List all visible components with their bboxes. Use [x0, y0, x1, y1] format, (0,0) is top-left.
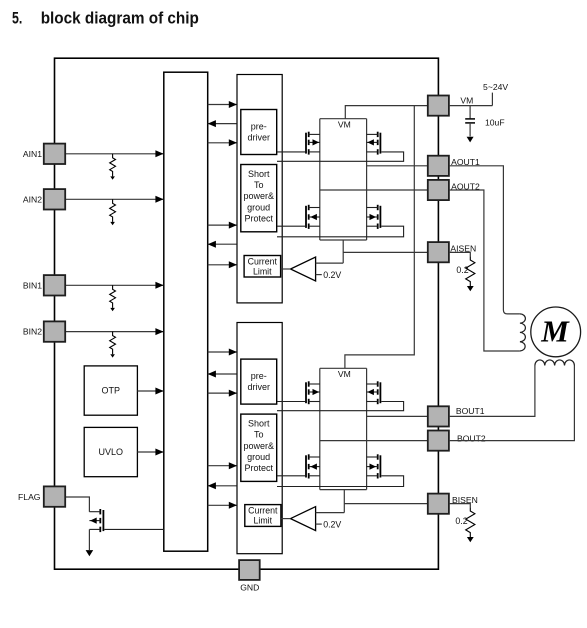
wire UVLO to logic: [137, 451, 163, 453]
wire BOUT1 node to pad: [367, 415, 428, 417]
svg-text:UVLO: UVLO: [99, 447, 124, 457]
svg-text:GND: GND: [240, 583, 259, 593]
svg-text:Limit: Limit: [254, 516, 273, 526]
bridge A bottom rail: [320, 239, 367, 241]
svg-text:pre-: pre-: [251, 121, 267, 131]
svg-text:AIN1: AIN1: [23, 149, 42, 159]
transistor Q1 (FLAG open drain): [89, 509, 163, 532]
svg-text:Short: Short: [248, 169, 270, 179]
OTP block: [84, 366, 137, 415]
wire bridge A sense tap: [342, 240, 344, 263]
capacitor C1 10uF: [469, 106, 471, 119]
wire BISEN node to pad: [344, 503, 428, 505]
svg-text:AIN2: AIN2: [23, 194, 42, 204]
wire VM pad to supply: [449, 105, 493, 107]
current limit block B: [245, 505, 281, 527]
pad BOUT2: [428, 431, 449, 451]
svg-text:BOUT2: BOUT2: [457, 433, 486, 443]
control logic block: [164, 72, 208, 551]
sense resistor 0.2 ohm A: [466, 256, 475, 286]
pad GND: [239, 560, 260, 580]
svg-text:pre-: pre-: [251, 371, 267, 381]
svg-text:Limit: Limit: [253, 266, 272, 276]
svg-text:0.2: 0.2: [456, 265, 468, 275]
short-to-power-ground protect block B: [241, 414, 277, 481]
wire BIN2 to logic: [65, 331, 163, 333]
MOSFET B4 (low side right): [277, 454, 404, 486]
svg-text:5.: 5.: [12, 8, 22, 27]
svg-text:5~24V: 5~24V: [483, 82, 508, 92]
wire VM pad to bridge A rail: [345, 106, 428, 119]
pre-driver block B: [241, 359, 277, 404]
wire FLAG pad to transistor drain: [65, 497, 89, 512]
wire BIN1 to logic: [65, 284, 163, 286]
wire AIN1 to logic: [65, 153, 163, 155]
wire comparator B reference input: [316, 523, 322, 525]
pulldown resistor on BIN1: [110, 285, 116, 308]
svg-text:BIN2: BIN2: [23, 327, 42, 337]
svg-text:VM: VM: [338, 369, 351, 379]
supply stub 5~24V: [491, 93, 493, 106]
control signal wire B2: [208, 373, 237, 375]
sense resistor 0.2 ohm B: [466, 507, 475, 537]
wire AOUT1 node to pad: [367, 165, 428, 167]
svg-text:groud: groud: [247, 452, 270, 462]
comparator U3 (current limit B): [291, 507, 316, 531]
MOSFET B1 (high side left): [277, 381, 320, 404]
MOSFET A4 (low side right): [277, 205, 404, 237]
bridge B bottom rail: [320, 489, 367, 491]
control signal wire B1: [208, 351, 237, 353]
MOSFET A2 (high side right): [277, 132, 404, 162]
wire Q1 source to ground: [88, 529, 90, 550]
svg-text:driver: driver: [247, 132, 270, 142]
svg-text:VM: VM: [338, 119, 351, 129]
control signal wire A2: [208, 123, 237, 125]
svg-text:M: M: [540, 314, 570, 349]
wire bridge B sense tap: [343, 490, 345, 513]
svg-text:BIN1: BIN1: [23, 280, 42, 290]
svg-text:groud: groud: [247, 202, 270, 212]
driver unit B container: [237, 323, 282, 554]
control signal wire B5: [208, 485, 237, 487]
svg-text:block diagram of chip: block diagram of chip: [41, 8, 199, 27]
short-to-power-ground protect block A: [241, 165, 277, 232]
pad BIN2: [44, 321, 65, 341]
driver unit A container: [237, 75, 282, 303]
svg-text:Short: Short: [248, 419, 270, 429]
pulldown resistor on AIN1: [110, 154, 116, 177]
svg-text:power&: power&: [243, 191, 274, 201]
wire AIN2 to logic: [65, 198, 163, 200]
MOSFET A1 (high side left): [277, 132, 320, 155]
wire AOUT1 to motor coil A top: [449, 166, 520, 314]
current limit block A: [244, 256, 281, 278]
pulldown resistor on BIN2: [110, 332, 116, 355]
svg-text:OTP: OTP: [102, 386, 121, 396]
svg-text:FLAG: FLAG: [18, 492, 41, 502]
wire comparator A output to current limit block: [281, 268, 291, 270]
pad BOUT1: [428, 406, 449, 426]
bridge B VM top rail: [320, 367, 367, 369]
pad AISEN: [428, 242, 449, 262]
wire AISEN pad to sense resistor: [449, 252, 470, 256]
pad FLAG: [44, 486, 65, 506]
pad BISEN: [428, 494, 449, 514]
svg-text:driver: driver: [247, 382, 270, 392]
wire AOUT2 to motor coil A bottom: [449, 190, 520, 351]
wire BOUT1 to motor coil B left: [449, 366, 535, 417]
wire BISEN pad to sense resistor: [449, 504, 470, 508]
chip boundary: [55, 58, 439, 569]
svg-text:Protect: Protect: [244, 213, 273, 223]
MOSFET B3 (low side left): [277, 454, 320, 478]
motor symbol M1: [531, 307, 581, 357]
bridge A left vertical rail: [319, 119, 321, 240]
control signal wire A1: [208, 104, 237, 106]
wire comparator B output to current limit block: [281, 518, 291, 520]
pad BIN1: [44, 275, 65, 295]
control signal wire B6: [208, 504, 237, 506]
svg-text:Current: Current: [248, 256, 278, 266]
control signal wire A5: [208, 243, 237, 245]
bridge B right vertical rail: [366, 368, 368, 489]
wire VM feed to bridge B: [345, 106, 414, 369]
comparator U2 (current limit A): [291, 257, 316, 281]
svg-text:power&: power&: [243, 441, 274, 451]
bridge A right vertical rail: [366, 119, 368, 240]
svg-text:Protect: Protect: [244, 463, 273, 473]
svg-text:To: To: [254, 430, 264, 440]
pad AOUT2: [428, 180, 449, 200]
MOSFET B2 (high side right): [277, 381, 404, 410]
wire comparator A reference input: [316, 274, 322, 276]
wire AISEN node to pad: [343, 251, 428, 253]
svg-text:VM: VM: [460, 95, 473, 105]
pre-driver block A: [241, 110, 277, 155]
bridge B left vertical rail: [319, 368, 321, 489]
svg-text:To: To: [254, 180, 264, 190]
svg-text:0.2: 0.2: [455, 516, 467, 526]
bridge A VM top rail: [320, 118, 367, 120]
wire BOUT2 node to pad: [320, 440, 428, 442]
svg-text:0.2V: 0.2V: [323, 520, 341, 530]
wire AOUT2 node to pad: [320, 189, 428, 191]
pad AOUT1: [428, 156, 449, 176]
wire comparator A plus input from AISEN: [316, 262, 344, 264]
ground arrow below C1: [467, 137, 474, 143]
control signal wire B4: [208, 465, 237, 467]
pad VM: [428, 96, 449, 116]
control signal wire A3: [208, 142, 237, 144]
motor coil B (phase B inductor): [535, 360, 575, 366]
ground arrow below Q1: [86, 550, 94, 556]
wire BOUT2 to motor coil B right: [449, 366, 575, 441]
UVLO block: [84, 427, 137, 476]
svg-text:0.2V: 0.2V: [323, 270, 341, 280]
control signal wire A6: [208, 264, 237, 266]
MOSFET A3 (low side left): [277, 205, 320, 229]
svg-text:BOUT1: BOUT1: [456, 406, 485, 416]
pad AIN1: [44, 144, 65, 164]
control signal wire B3: [208, 392, 237, 394]
pulldown resistor on AIN2: [110, 199, 116, 222]
wire OTP to logic: [137, 390, 163, 392]
svg-text:10uF: 10uF: [485, 117, 505, 127]
pad AIN2: [44, 189, 65, 209]
wire comparator B plus input from BISEN: [316, 512, 345, 514]
svg-text:Current: Current: [248, 506, 278, 516]
control signal wire A4: [208, 224, 237, 226]
motor coil A (phase A inductor): [520, 314, 526, 351]
